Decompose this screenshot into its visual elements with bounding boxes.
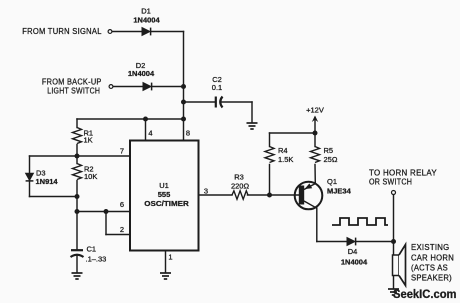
svg-text:555: 555 [158,190,171,199]
svg-text:6: 6 [120,200,124,209]
svg-text:R3: R3 [234,173,244,182]
svg-text:1.5K: 1.5K [278,155,293,164]
svg-text:+12V: +12V [306,106,324,115]
svg-text:2: 2 [120,225,124,234]
svg-text:R5: R5 [324,146,334,155]
svg-text:EXISTING: EXISTING [411,242,450,252]
svg-text:TO HORN RELAY: TO HORN RELAY [369,169,437,178]
svg-text:0.1: 0.1 [212,83,222,92]
svg-text:(ACTS AS: (ACTS AS [411,262,448,272]
svg-text:U1: U1 [159,181,169,190]
svg-text:OSC/TIMER: OSC/TIMER [144,199,189,208]
svg-text:25Ω: 25Ω [324,155,338,164]
svg-text:R4: R4 [278,146,288,155]
svg-text:Q1: Q1 [327,177,337,186]
svg-text:FROM TURN SIGNAL: FROM TURN SIGNAL [22,26,102,36]
svg-text:8: 8 [186,129,190,138]
svg-text:10K: 10K [84,172,97,181]
svg-text:SeekIC.com: SeekIC.com [393,287,457,301]
svg-text:3: 3 [204,187,208,196]
svg-text:1N914: 1N914 [36,177,59,186]
svg-text:SPEAKER): SPEAKER) [411,273,452,283]
svg-text:4: 4 [148,129,152,138]
svg-text:.1–.33: .1–.33 [86,254,107,263]
svg-text:MJE34: MJE34 [327,187,352,196]
svg-text:1K: 1K [84,136,93,145]
svg-text:1N4004: 1N4004 [133,16,160,25]
svg-text:C1: C1 [87,245,97,254]
svg-text:7: 7 [120,147,124,156]
svg-text:1N4004: 1N4004 [128,69,155,78]
svg-text:220Ω: 220Ω [231,182,250,191]
svg-text:OR SWITCH: OR SWITCH [369,177,412,186]
svg-text:D1: D1 [141,6,151,15]
svg-text:D4: D4 [348,247,358,256]
svg-text:1: 1 [168,253,172,262]
svg-text:CAR HORN: CAR HORN [411,252,454,262]
svg-text:1N4004: 1N4004 [341,258,368,267]
svg-text:LIGHT SWITCH: LIGHT SWITCH [47,85,100,95]
